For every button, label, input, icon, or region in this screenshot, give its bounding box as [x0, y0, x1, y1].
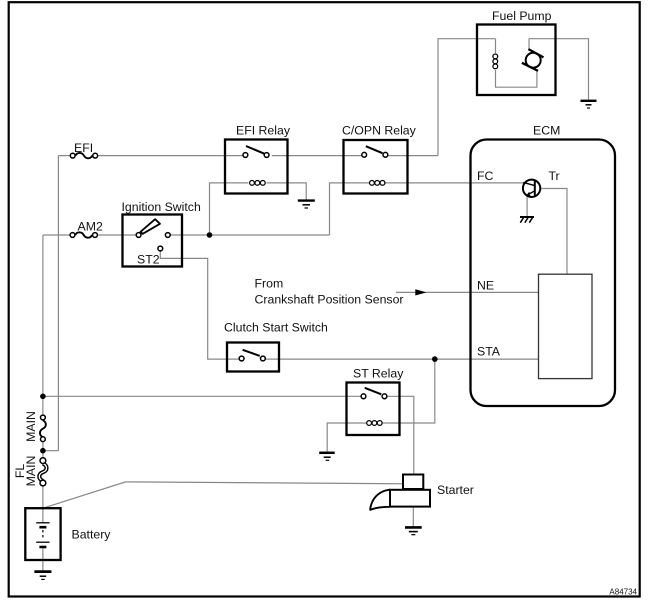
transistor Tr	[523, 180, 540, 197]
wire battery to starter	[43, 482, 403, 508]
junction dot main feed upper	[40, 394, 46, 400]
ECM inner block	[539, 274, 593, 378]
starter horn	[370, 490, 390, 510]
svg-text:Tr: Tr	[549, 169, 560, 183]
svg-text:NE: NE	[477, 279, 494, 293]
wire NE arrow line	[396, 291, 539, 293]
svg-text:Fuel Pump: Fuel Pump	[492, 9, 552, 23]
wire EFI relay coil left	[210, 183, 249, 235]
ST relay switch	[361, 388, 387, 399]
wire ST relay switch right to starter	[387, 396, 414, 474]
battery box	[25, 508, 60, 560]
fuel pump box	[477, 25, 556, 96]
ECM box	[471, 140, 616, 407]
wire transistor collector to inner box	[541, 189, 567, 275]
ground battery	[34, 572, 51, 580]
wire ST2 to clutch switch	[160, 251, 239, 359]
wire fuel pump internal bottom	[496, 70, 537, 87]
ST relay coil	[367, 421, 382, 426]
svg-text:C/OPN Relay: C/OPN Relay	[342, 123, 417, 137]
svg-text:ST2: ST2	[137, 253, 160, 267]
wire dot2 branch to EFI vertical	[43, 450, 59, 452]
wire EFI vertical feed	[57, 156, 59, 451]
ST relay box	[347, 383, 400, 436]
ignition switch contacts	[136, 233, 170, 251]
wire starter to ground	[412, 507, 414, 527]
fuse AM2	[70, 232, 97, 237]
svg-text:ST Relay: ST Relay	[353, 366, 404, 380]
svg-text:From: From	[255, 277, 284, 291]
svg-text:Ignition Switch: Ignition Switch	[122, 200, 201, 214]
ground EFI relay	[298, 201, 315, 208]
junction dot STA branch	[432, 356, 438, 362]
relay EFI box	[225, 140, 288, 194]
battery cells	[36, 523, 49, 547]
wire fuel pump internal left	[495, 39, 497, 53]
wire AM2 line	[43, 234, 330, 236]
wire C/OPN to fuel pump vertical	[438, 39, 496, 156]
svg-text:Battery: Battery	[72, 528, 112, 542]
wire battery to ground	[42, 549, 44, 571]
starter motor body	[390, 490, 430, 507]
fuel pump motor	[522, 49, 544, 71]
svg-text:AM2: AM2	[78, 220, 103, 234]
relay C/OPN switch	[362, 146, 388, 157]
ground ST relay	[319, 453, 335, 461]
chassis ground transistor	[520, 217, 534, 223]
svg-text:ECM: ECM	[533, 124, 560, 138]
relay C/OPN coil	[370, 181, 385, 186]
wire EFI feed horizontal	[58, 155, 438, 157]
relay EFI switch	[243, 146, 269, 157]
starter solenoid box	[403, 475, 423, 490]
svg-text:STA: STA	[477, 345, 501, 359]
wire ST relay coil right branch	[382, 359, 434, 423]
fuel pump coil	[493, 54, 498, 69]
fuse EFI	[70, 153, 97, 158]
wire EFI relay coil right to ground	[267, 183, 307, 200]
wire C/OPN coil to FC	[384, 182, 525, 184]
wire transistor emitter to ground	[526, 197, 528, 216]
wire clutch switch to STA	[266, 358, 539, 360]
svg-text:MAIN: MAIN	[24, 411, 38, 442]
svg-text:Crankshaft Position Sensor: Crankshaft Position Sensor	[255, 293, 404, 307]
fuse MAIN	[40, 415, 46, 442]
wire main vertical feed	[42, 235, 44, 523]
fusible link FL MAIN	[39, 458, 46, 486]
junction dot ignition output	[207, 232, 213, 238]
clutch start switch contacts	[239, 350, 265, 361]
wire ST relay coil left to ground	[327, 423, 366, 452]
svg-text:Starter: Starter	[437, 483, 474, 497]
junction dot main feed lower	[40, 448, 46, 454]
wire ignition to C/OPN coil	[330, 183, 370, 235]
svg-text:FC: FC	[477, 169, 494, 183]
NE arrowhead	[415, 289, 426, 295]
svg-text:Clutch Start Switch: Clutch Start Switch	[224, 321, 328, 335]
clutch start switch box	[227, 343, 279, 372]
ground fuel pump	[581, 101, 597, 108]
svg-text:EFI Relay: EFI Relay	[236, 123, 291, 137]
ignition switch box	[123, 215, 183, 267]
svg-text:A84734: A84734	[609, 588, 637, 597]
wire fuel pump motor top	[528, 39, 530, 49]
svg-text:EFI: EFI	[74, 141, 93, 155]
relay C/OPN box	[344, 140, 408, 194]
wire fuel pump right to ground	[529, 39, 589, 100]
relay EFI coil	[250, 181, 266, 186]
wire ST relay switch left	[43, 395, 361, 397]
ignition switch lever	[141, 219, 161, 234]
svg-text:MAIN: MAIN	[24, 456, 38, 487]
ground starter	[405, 527, 422, 534]
